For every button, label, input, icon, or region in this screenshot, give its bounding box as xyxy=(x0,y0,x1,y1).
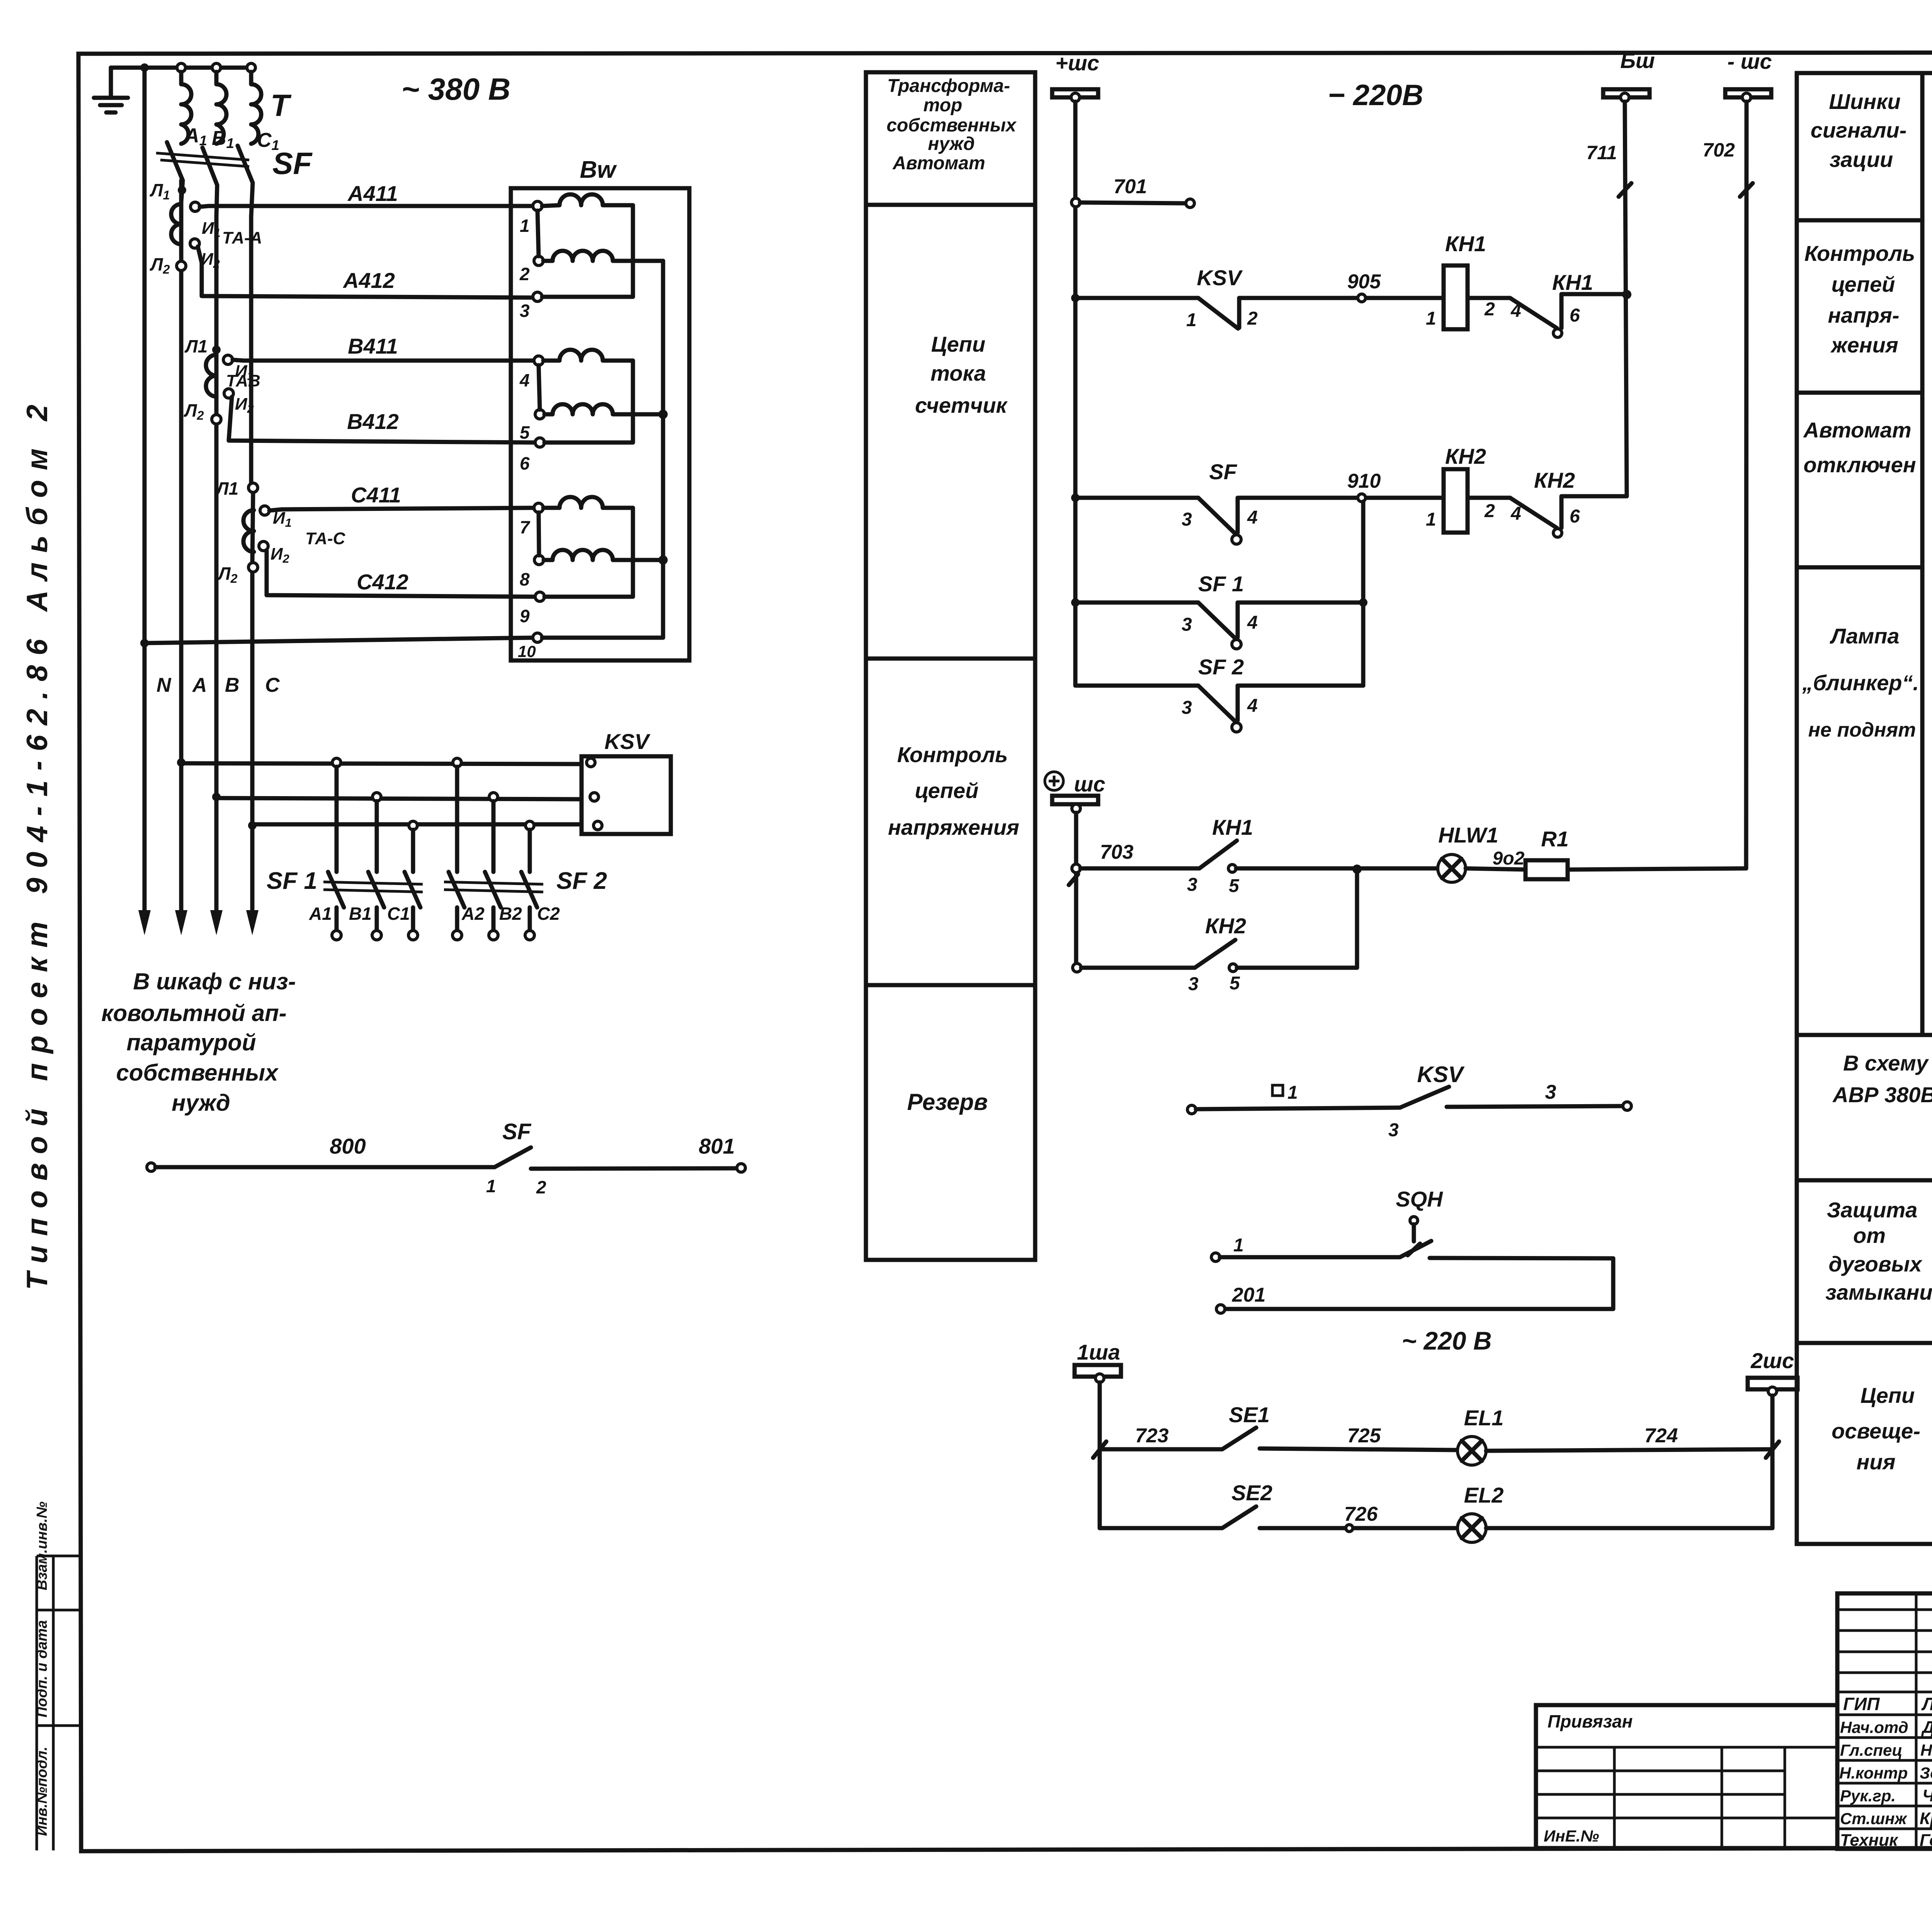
svg-text:4: 4 xyxy=(1247,507,1258,528)
svg-text:9o2: 9o2 xyxy=(1493,848,1525,869)
current coil phase C xyxy=(543,497,633,597)
svg-text:3: 3 xyxy=(1188,974,1199,994)
wire 725 xyxy=(1260,1448,1458,1450)
svg-text:1: 1 xyxy=(1186,310,1197,330)
contact SF2 aux xyxy=(1198,686,1238,721)
bus -шс xyxy=(1725,89,1771,97)
wire 3 xyxy=(1447,1106,1623,1107)
svg-text:A412: A412 xyxy=(342,268,395,293)
svg-text:1: 1 xyxy=(1287,1083,1298,1103)
svg-text:замыканий: замыканий xyxy=(1825,1280,1932,1304)
box: В схему АВР 380В xyxy=(1797,1035,1932,1180)
svg-text:SE2: SE2 xyxy=(1231,1481,1272,1505)
svg-text:1ша: 1ша xyxy=(1077,1340,1120,1364)
wire B411 xyxy=(233,360,534,361)
CT TA-C primary node L1 xyxy=(248,483,258,492)
terminal 5 xyxy=(535,410,544,419)
terminal 1 xyxy=(533,201,542,211)
transformer T winding A1 xyxy=(181,72,191,144)
wire 723 xyxy=(1100,1447,1222,1452)
svg-text:счетчик: счетчик xyxy=(915,393,1008,417)
svg-text:2шс: 2шс xyxy=(1750,1348,1794,1373)
breaker SF2 pole B drop xyxy=(492,801,496,872)
svg-text:Автомат: Автомат xyxy=(1803,418,1911,442)
contact SF1 aux xyxy=(1198,603,1238,638)
svg-text:KSV: KSV xyxy=(1197,266,1243,290)
arrow B xyxy=(210,910,223,935)
svg-text:Гл.спец: Гл.спец xyxy=(1840,1741,1902,1759)
svg-text:Н.контр: Н.контр xyxy=(1839,1764,1908,1782)
svg-text:3: 3 xyxy=(1545,1081,1556,1103)
svg-text:SF 1: SF 1 xyxy=(1198,572,1244,596)
svg-text:6: 6 xyxy=(1570,305,1580,326)
relay coil KН2 xyxy=(1444,469,1468,533)
CT TA-B terminal I1 xyxy=(223,355,233,364)
contact KН2 no xyxy=(1195,940,1235,968)
terminal 9 xyxy=(535,592,544,601)
svg-text:SF: SF xyxy=(272,146,313,180)
ROW KН2 contact lamp xyxy=(1073,963,1081,972)
svg-text:2: 2 xyxy=(1247,308,1258,329)
svg-text:6: 6 xyxy=(520,453,530,473)
svg-text:5: 5 xyxy=(1230,973,1240,994)
svg-text:SQH: SQH xyxy=(1396,1187,1443,1211)
wire to 2шс xyxy=(1486,1526,1772,1530)
svg-text:2: 2 xyxy=(1484,299,1495,320)
svg-text:2: 2 xyxy=(519,264,530,284)
svg-text:~ 380 В: ~ 380 В xyxy=(401,72,510,106)
svg-text:Кравцова: Кравцова xyxy=(1920,1809,1932,1828)
svg-text:ния: ния xyxy=(1856,1450,1895,1474)
title block outer xyxy=(1837,1593,1932,1849)
wire 902 xyxy=(1466,868,1526,870)
svg-text:Бш: Бш xyxy=(1620,48,1655,73)
wire 910 xyxy=(1239,496,1444,500)
svg-text:HLW1: HLW1 xyxy=(1438,823,1498,847)
voltage coil phase C xyxy=(539,512,663,560)
svg-text:801: 801 xyxy=(699,1134,735,1158)
wire phase A to KSV xyxy=(181,763,582,764)
breaker SF2 terminals xyxy=(452,931,462,940)
svg-text:КН2: КН2 xyxy=(1445,444,1486,468)
top feeder bus xyxy=(111,66,251,70)
svg-text:ТА-С: ТА-С xyxy=(305,529,346,548)
svg-text:от: от xyxy=(1853,1223,1886,1248)
CT TA-B primary node L1 xyxy=(212,346,221,354)
function column box xyxy=(866,72,1035,1260)
cable mark 711 xyxy=(1619,183,1631,197)
wire C412 xyxy=(267,551,536,597)
node on Бш feeder xyxy=(1622,290,1631,299)
svg-text:SF: SF xyxy=(1209,460,1237,484)
svg-text:Давыдов: Давыдов xyxy=(1921,1718,1932,1737)
svg-text:8: 8 xyxy=(520,569,530,589)
breaker SF1 pole A drop xyxy=(335,767,339,872)
svg-text:АВР 380В: АВР 380В xyxy=(1832,1083,1932,1107)
box: Цепи освещения xyxy=(1797,1343,1932,1544)
svg-text:701: 701 xyxy=(1114,175,1147,198)
CT TA-A terminal I1 xyxy=(190,202,200,211)
svg-text:Взам.инв.№: Взам.инв.№ xyxy=(34,1501,50,1590)
ROW SF1 aux xyxy=(1071,598,1080,607)
svg-text:Леонов: Леонов xyxy=(1921,1694,1932,1714)
switch SE1 xyxy=(1222,1428,1256,1449)
svg-text:9: 9 xyxy=(520,606,530,626)
wire 905 xyxy=(1239,296,1444,300)
svg-text:В схему: В схему xyxy=(1843,1051,1929,1075)
svg-text:напря-: напря- xyxy=(1828,303,1899,327)
svg-text:Рук.гр.: Рук.гр. xyxy=(1840,1787,1896,1805)
switch SE2 xyxy=(1222,1506,1256,1528)
SF pole B blade xyxy=(202,148,217,216)
ROW SF2 aux xyxy=(1075,684,1198,688)
svg-text:SF 1: SF 1 xyxy=(267,868,317,894)
svg-text:C411: C411 xyxy=(351,483,401,507)
svg-text:N: N xyxy=(156,674,172,696)
svg-text:Bw: Bw xyxy=(580,157,617,183)
svg-text:Лампа: Лампа xyxy=(1829,624,1899,648)
svg-text:4: 4 xyxy=(1247,613,1258,633)
node drop KН2 xyxy=(1352,865,1362,874)
lamp EL2 xyxy=(1458,1514,1486,1542)
svg-text:KSV: KSV xyxy=(1417,1062,1465,1087)
svg-text:Шинки: Шинки xyxy=(1829,89,1900,114)
svg-text:1: 1 xyxy=(486,1176,496,1196)
svg-text:SF: SF xyxy=(502,1119,532,1144)
svg-text:A: A xyxy=(192,674,207,696)
svg-text:Нач.отд: Нач.отд xyxy=(1840,1718,1908,1736)
phase line C xyxy=(251,216,253,563)
phase line N xyxy=(143,68,147,917)
left stamp strip xyxy=(37,1556,80,1850)
svg-text:5: 5 xyxy=(520,422,530,443)
svg-text:726: 726 xyxy=(1344,1503,1378,1525)
wire to KSV contact xyxy=(1075,296,1198,300)
breaker SF2 pole C drop xyxy=(528,830,532,872)
svg-text:C1: C1 xyxy=(387,904,410,924)
resistor R1 xyxy=(1526,860,1568,879)
bus +шс xyxy=(1052,89,1098,97)
svg-text:Контроль: Контроль xyxy=(897,742,1008,767)
divider rows xyxy=(866,205,1035,985)
row 1 xyxy=(1211,1253,1220,1261)
phase tap circles xyxy=(177,63,185,72)
CT TA-A terminal L2 xyxy=(177,261,186,271)
wire A412 xyxy=(198,247,534,298)
tap circles wire C xyxy=(409,821,417,830)
svg-text:цепей: цепей xyxy=(915,778,979,803)
CT TA-C secondary winding xyxy=(243,510,254,552)
svg-text:~ 220 В: ~ 220 В xyxy=(1402,1326,1492,1355)
svg-text:3: 3 xyxy=(1182,698,1192,718)
contact KН1 xyxy=(1510,298,1557,328)
svg-text:SE1: SE1 xyxy=(1229,1402,1270,1427)
svg-text:723: 723 xyxy=(1135,1425,1169,1447)
breaker SF1 blades xyxy=(328,872,420,907)
svg-text:800: 800 xyxy=(330,1134,366,1158)
svg-text:Цепи сигнализации: Цепи сигнализации xyxy=(1929,246,1932,846)
svg-text:Контроль: Контроль xyxy=(1804,241,1915,266)
svg-text:ковольтной ап-: ковольтной ап- xyxy=(101,1000,286,1026)
svg-text:R1: R1 xyxy=(1541,827,1569,851)
contact KSV xyxy=(1198,298,1239,328)
wire C411 xyxy=(269,508,535,511)
svg-text:1: 1 xyxy=(1426,308,1436,329)
phase line B xyxy=(214,216,219,415)
svg-text:7: 7 xyxy=(520,517,531,537)
svg-text:201: 201 xyxy=(1232,1284,1266,1306)
svg-text:703: 703 xyxy=(1100,841,1134,863)
svg-text:В шкаф с низ-: В шкаф с низ- xyxy=(133,968,296,994)
terminal 6 xyxy=(535,438,544,447)
svg-text:Цепи: Цепи xyxy=(931,332,985,356)
voltage check relay KSV box xyxy=(582,756,671,834)
wire N to meter terminal 10 xyxy=(145,638,534,643)
current coil phase B xyxy=(543,350,633,443)
svg-text:3: 3 xyxy=(1182,509,1192,530)
feeder 1ша vertical xyxy=(1098,1382,1102,1528)
node voltage C xyxy=(658,555,668,565)
signal column boxes xyxy=(1797,73,1922,1035)
wire phase C to KSV xyxy=(252,822,582,827)
svg-text:C: C xyxy=(265,674,280,696)
ROW 703 lamp xyxy=(1072,864,1080,873)
svg-text:тор: тор xyxy=(923,95,963,116)
svg-text:Горстка: Горстка xyxy=(1920,1831,1932,1850)
lamp HLW1 xyxy=(1438,854,1466,882)
wire 801 xyxy=(531,1168,737,1169)
svg-text:КН2: КН2 xyxy=(1534,468,1575,492)
svg-text:нужд: нужд xyxy=(172,1090,230,1116)
svg-text:ТА-А: ТА-А xyxy=(222,228,262,247)
arrow N xyxy=(138,910,151,935)
CT TA-C terminal I2 xyxy=(259,541,268,551)
svg-text:Подп. и дата: Подп. и дата xyxy=(34,1620,50,1717)
svg-text:EL2: EL2 xyxy=(1464,1483,1504,1507)
wire phase B to KSV xyxy=(216,798,582,799)
svg-text:3: 3 xyxy=(520,301,530,321)
terminal 201 xyxy=(1216,1305,1225,1313)
svg-text:T: T xyxy=(270,88,292,123)
svg-text:зации: зации xyxy=(1830,147,1893,172)
terminal 3 xyxy=(533,292,542,301)
svg-text:жения: жения xyxy=(1830,333,1898,357)
svg-text:5: 5 xyxy=(1229,876,1240,896)
contact SF aux xyxy=(1198,498,1238,533)
svg-text:EL1: EL1 xyxy=(1464,1406,1504,1430)
svg-text:нужд: нужд xyxy=(928,134,975,154)
wire 801 right terminal xyxy=(737,1164,745,1172)
svg-text:КН1: КН1 xyxy=(1445,231,1486,256)
svg-text:КН2: КН2 xyxy=(1205,914,1246,938)
bus ⊕шс xyxy=(1045,772,1063,790)
svg-text:4: 4 xyxy=(1510,504,1521,524)
tap circles wire A xyxy=(332,758,341,767)
wire SF1 row to node xyxy=(1239,601,1363,605)
svg-text:напряжения: напряжения xyxy=(888,815,1019,839)
svg-text:ИнЕ.№: ИнЕ.№ xyxy=(1544,1827,1599,1845)
CT TA-C terminal L2 xyxy=(248,563,258,572)
svg-text:3: 3 xyxy=(1187,875,1197,895)
breaker SF1 lower stubs xyxy=(337,907,413,931)
svg-text:4: 4 xyxy=(1510,301,1521,321)
svg-text:Привязан: Привязан xyxy=(1548,1711,1633,1731)
feeder Бш vertical xyxy=(1625,102,1627,496)
wire 724 xyxy=(1486,1449,1772,1451)
arrow C xyxy=(246,910,259,935)
svg-text:Цепи: Цепи xyxy=(1861,1383,1915,1408)
svg-text:725: 725 xyxy=(1347,1425,1381,1447)
svg-text:КН1: КН1 xyxy=(1552,270,1593,294)
svg-text:B2: B2 xyxy=(499,904,522,924)
contact KSV reserve xyxy=(1400,1087,1449,1108)
svg-text:3: 3 xyxy=(1182,614,1192,635)
svg-text:не поднят: не поднят xyxy=(1808,719,1916,741)
breaker SF1 pole B drop xyxy=(375,801,379,872)
wire B412 xyxy=(229,397,535,443)
node N on top bus xyxy=(140,63,149,72)
wire to lamp xyxy=(1236,866,1438,871)
row 1 right segment xyxy=(1225,1258,1613,1309)
circuit breaker SF busbars xyxy=(156,153,249,167)
svg-text:ГИП: ГИП xyxy=(1843,1694,1880,1714)
svg-text:Резерв: Резерв xyxy=(907,1089,988,1115)
current coil phase A xyxy=(542,194,633,297)
wire to SF1 contact xyxy=(1075,601,1198,605)
svg-text:− 220В: − 220В xyxy=(1328,79,1423,112)
svg-text:Л1: Л1 xyxy=(215,478,238,499)
ROW KН1 coil xyxy=(1071,294,1080,302)
node phase C tap xyxy=(248,821,257,830)
svg-text:отключен: отключен xyxy=(1803,453,1916,477)
svg-text:ТАВ: ТАВ xyxy=(226,371,260,390)
wire to KН2 contact xyxy=(1468,496,1510,500)
svg-text:702: 702 xyxy=(1702,139,1735,161)
breaker SF2 busbars xyxy=(444,882,543,892)
wire to KН1 contact xyxy=(1468,296,1510,300)
svg-text:Инв.№подл.: Инв.№подл. xyxy=(34,1746,50,1836)
contact KН2 xyxy=(1510,498,1557,528)
wire 800 left terminal xyxy=(147,1163,155,1171)
svg-text:B: B xyxy=(225,674,240,696)
svg-text:2: 2 xyxy=(1484,501,1495,521)
transformer T winding C1 xyxy=(251,72,261,144)
node on N line for meter neutral xyxy=(140,639,149,647)
node phase A tap xyxy=(177,758,185,767)
svg-text:тока: тока xyxy=(930,361,986,385)
svg-text:шс: шс xyxy=(1074,772,1105,796)
svg-text:Чапны: Чапны xyxy=(1922,1786,1932,1805)
wire 800 xyxy=(155,1165,495,1169)
svg-text:Нашельский: Нашельский xyxy=(1920,1741,1932,1759)
CT TA-A secondary winding xyxy=(171,204,181,244)
svg-text:B1: B1 xyxy=(349,904,372,924)
svg-text:Автомат: Автомат xyxy=(892,153,985,174)
cable mark 702 xyxy=(1740,183,1753,197)
svg-text:B412: B412 xyxy=(347,409,399,434)
box: Защита от дуговых замыканий xyxy=(1797,1180,1932,1343)
wire 701 xyxy=(1080,203,1186,203)
transformer T winding B1 xyxy=(216,72,226,144)
breaker SF1 pole C drop xyxy=(411,830,415,872)
svg-text:KSV: KSV xyxy=(604,729,651,754)
svg-text:КН1: КН1 xyxy=(1212,815,1253,839)
svg-text:собственных: собственных xyxy=(116,1060,279,1086)
CT TA-B terminal L2 xyxy=(212,415,221,424)
node 910 drop xyxy=(1359,598,1367,607)
svg-text:цепей: цепей xyxy=(1832,272,1895,296)
cable mark 723 xyxy=(1093,1442,1106,1458)
arrow A xyxy=(175,910,187,935)
svg-text:C412: C412 xyxy=(357,570,408,594)
wire 726 xyxy=(1260,1526,1456,1530)
node 701 xyxy=(1071,198,1080,207)
svg-text:освеще-: освеще- xyxy=(1832,1419,1920,1443)
svg-text:4: 4 xyxy=(1247,696,1258,716)
wire SE2 row xyxy=(1100,1526,1222,1530)
ground xyxy=(94,68,128,112)
svg-text:+шс: +шс xyxy=(1055,51,1099,75)
terminal 8 xyxy=(534,555,544,565)
SF pole C blade xyxy=(238,146,253,216)
svg-text:905: 905 xyxy=(1347,271,1381,293)
CT TA-A terminal I2 xyxy=(190,239,199,248)
svg-text:паратурой: паратурой xyxy=(126,1030,256,1055)
terminal 7 xyxy=(534,503,543,512)
relay coil KН1 xyxy=(1444,266,1468,329)
wire to SF aux contact xyxy=(1075,496,1198,500)
lamp EL1 xyxy=(1458,1437,1486,1465)
SF pole A blade xyxy=(167,142,183,202)
svg-text:сигнали-: сигнали- xyxy=(1811,118,1907,142)
svg-text:C2: C2 xyxy=(537,904,560,924)
kWh meter Bw box xyxy=(511,188,689,660)
svg-text:B411: B411 xyxy=(348,334,398,358)
feeder -шс vertical xyxy=(1746,102,1747,868)
CT TA-B terminal I2 xyxy=(224,389,233,398)
svg-text:10: 10 xyxy=(518,642,536,660)
terminal 2 xyxy=(534,256,543,266)
svg-text:724: 724 xyxy=(1645,1425,1678,1447)
tap circles wire B xyxy=(372,793,381,801)
svg-text:Золотарева: Золотарева xyxy=(1920,1764,1932,1782)
svg-text:Типовой проект 904-1-62.86: Типовой проект 904-1-62.86 Альбом 2 xyxy=(21,395,54,1290)
CT TA-B secondary winding xyxy=(206,355,216,397)
wire up to node xyxy=(1237,869,1357,968)
breaker SF2 lower stubs xyxy=(457,907,530,931)
node phase B tap xyxy=(212,793,221,801)
svg-text:дуговых: дуговых xyxy=(1828,1252,1923,1276)
svg-text:Трансформа-: Трансформа- xyxy=(887,76,1010,96)
drop 910 vertical xyxy=(1361,502,1366,686)
breaker SF2 pole A drop xyxy=(455,767,459,872)
breaker SF1 busbars xyxy=(323,882,423,892)
svg-text:„блинкер“.: „блинкер“. xyxy=(1802,671,1919,695)
feeder ⊕шс vertical xyxy=(1074,813,1078,968)
terminal 4 xyxy=(534,356,543,365)
svg-text:собственных: собственных xyxy=(886,115,1017,136)
svg-text:A2: A2 xyxy=(461,904,485,924)
left table rows xyxy=(1837,1610,1932,1829)
cable mark on 703 xyxy=(1069,874,1078,885)
svg-text:Ст.шнж: Ст.шнж xyxy=(1840,1809,1908,1828)
ROW reserve KSV xyxy=(1187,1105,1196,1114)
meter common bus xyxy=(542,261,663,638)
breaker SF1 terminals xyxy=(332,931,341,940)
svg-text:910: 910 xyxy=(1347,470,1381,492)
svg-text:1: 1 xyxy=(520,216,530,236)
svg-text:2: 2 xyxy=(536,1177,546,1197)
